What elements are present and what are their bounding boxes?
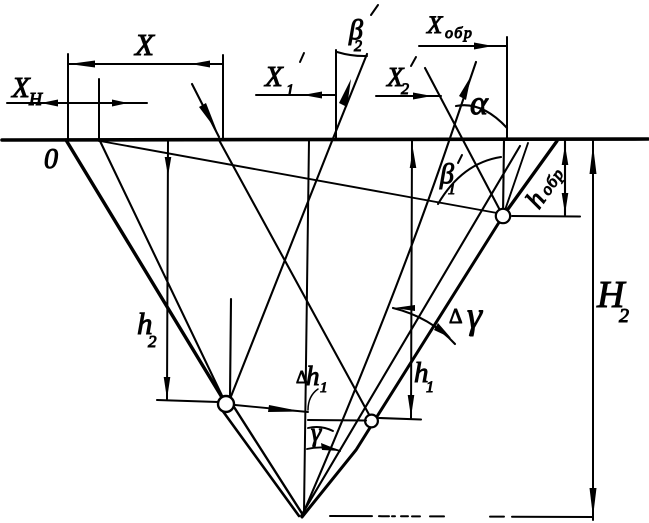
beta2 ray from left reflector through surface (228, 54, 367, 404)
vertical reference at Xобр (506, 37, 508, 140)
center vertical axis (304, 140, 309, 512)
arrow from left reflector to axis (235, 405, 308, 412)
svg-text:1: 1 (426, 379, 434, 396)
svg-text:1: 1 (320, 380, 328, 396)
top-right reflector circle (496, 209, 510, 223)
left reflector circle (218, 396, 234, 412)
gamma angle arc upper (308, 427, 333, 431)
svg-text:0: 0 (44, 144, 58, 175)
beta2 ray arrowhead (339, 79, 351, 107)
thin ray probe to left reflector (100, 141, 226, 404)
ray from probe X to bottom-right reflector (219, 140, 372, 420)
bottom dash-dot line (330, 516, 592, 517)
svg-text:X: X (133, 27, 155, 62)
left beam wedge to apex (inner) (234, 407, 303, 515)
h-obр extension line (512, 215, 580, 218)
h2 bottom arrowhead (164, 377, 171, 399)
vertical from surface to top-right reflector (503, 140, 504, 216)
H2 dimension line (592, 141, 594, 520)
svg-text:X: X (11, 72, 31, 104)
dimension X line (68, 63, 223, 65)
label h-obр (rotated) (519, 159, 570, 213)
dimension X2' line (376, 95, 441, 97)
right beam wedge apex to top-right reflector (outer thick) (302, 216, 503, 517)
alpha angle arc (456, 105, 507, 128)
dimension Xн line (7, 102, 147, 104)
dimension X right extension (222, 55, 224, 140)
exit ray arrowhead (459, 76, 471, 100)
h1 top arrowhead (410, 149, 417, 168)
h2 extension line (157, 400, 218, 402)
svg-text:1: 1 (286, 82, 294, 99)
dimension Xобр arrowhead (474, 43, 493, 50)
h1 dimension line (411, 140, 412, 418)
dimension X left arrowhead (69, 61, 95, 68)
dimension Xн left arrowhead (41, 100, 58, 107)
surface line (2, 139, 648, 140)
h1 extension line (379, 418, 421, 420)
thin ray probe to top-right reflector (100, 141, 497, 213)
dimension X1' line (256, 94, 336, 96)
h1 bottom arrowhead (408, 395, 415, 417)
svg-text:Δ: Δ (449, 304, 463, 328)
beta2 angle arc (337, 52, 367, 56)
thick beam reflector to exit point (503, 141, 557, 216)
svg-text:γ: γ (311, 418, 322, 447)
left beam wedge to apex (outer) (222, 410, 299, 516)
dimension X1' arrowhead (303, 92, 322, 99)
svg-text:2: 2 (354, 38, 362, 55)
svg-text:h: h (306, 361, 320, 391)
svg-text:обр: обр (445, 25, 473, 42)
exit ray alpha from apex (302, 62, 476, 516)
delta-gamma arc with arrows (393, 308, 455, 344)
short vertical above left reflector (230, 299, 231, 397)
depth tick at right reflector level (308, 419, 366, 422)
svg-text:H: H (28, 89, 43, 109)
h2 top arrowhead (165, 157, 172, 176)
beta1 angle arc (438, 157, 501, 204)
svg-text:2: 2 (148, 332, 157, 351)
right beam wedge (inner thin) (301, 146, 520, 516)
beta2 ray tip tick (prime) (371, 5, 378, 15)
thin line reflector to surface right (503, 143, 528, 216)
dimension Xобр line (419, 45, 507, 47)
svg-text:2: 2 (619, 305, 629, 327)
bottom-right reflector circle (365, 415, 378, 428)
h2 dimension line (167, 141, 168, 399)
svg-text:γ: γ (467, 295, 483, 337)
dimension Xн right arrowhead (112, 100, 128, 107)
vertical reference at X1 (335, 50, 337, 140)
probe exit tick at x=99 (98, 79, 100, 141)
thick beam origin to left reflector (66, 140, 226, 404)
svg-text:α: α (470, 85, 489, 122)
h-obр dimension line (564, 141, 566, 215)
svg-text:X: X (264, 61, 284, 93)
gamma angle arc lower with arrow (307, 447, 340, 451)
dimension X right arrowhead (191, 61, 210, 68)
svg-text:X: X (426, 12, 444, 39)
probe incident arrow above surface at X (192, 84, 219, 137)
dimension X left extension (67, 54, 69, 140)
delta-h1 leader (308, 389, 318, 410)
dimension X2' arrowhead (413, 93, 432, 100)
incident ray into top-right reflector (425, 68, 503, 216)
svg-text:2: 2 (401, 81, 409, 98)
